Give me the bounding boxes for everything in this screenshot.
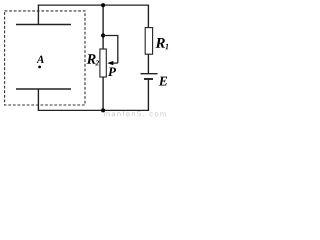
node junction dot top [101, 3, 105, 7]
wire main vertical top to R2 [102, 5, 104, 49]
wiper arrow shaft [113, 62, 118, 64]
label R1 subscript 1 [165, 44, 168, 49]
resistor R1 [145, 28, 152, 55]
resistor R2 rheostat body [100, 49, 106, 77]
node junction dot bottom [101, 108, 105, 112]
label R1 "R" [155, 38, 164, 48]
label R2 subscript 2 [95, 60, 99, 65]
capacitor top plate [16, 24, 71, 26]
battery E long plate [141, 73, 158, 75]
wire R1 to battery [147, 54, 149, 73]
wire wiper branch [103, 36, 118, 64]
node junction dot wiper [101, 33, 105, 37]
wire right branch down to R1 [147, 5, 149, 28]
wiper arrow head [107, 61, 113, 65]
wire bottom plate lead [37, 89, 39, 110]
watermark manfen5 com [104, 111, 165, 117]
wire top plate lead [37, 5, 39, 24]
wire bottom [38, 109, 149, 111]
capacitor bottom plate [16, 88, 71, 90]
battery E short plate [144, 78, 153, 80]
label P [108, 67, 116, 76]
node A label [36, 56, 43, 63]
node A dot [38, 66, 41, 69]
wire R2 to bottom [102, 77, 104, 110]
wire top [38, 4, 149, 6]
wire battery to bottom [147, 79, 149, 110]
dashed box around capacitor [5, 11, 85, 105]
label E [159, 77, 167, 86]
label R2 "R" [87, 54, 96, 63]
